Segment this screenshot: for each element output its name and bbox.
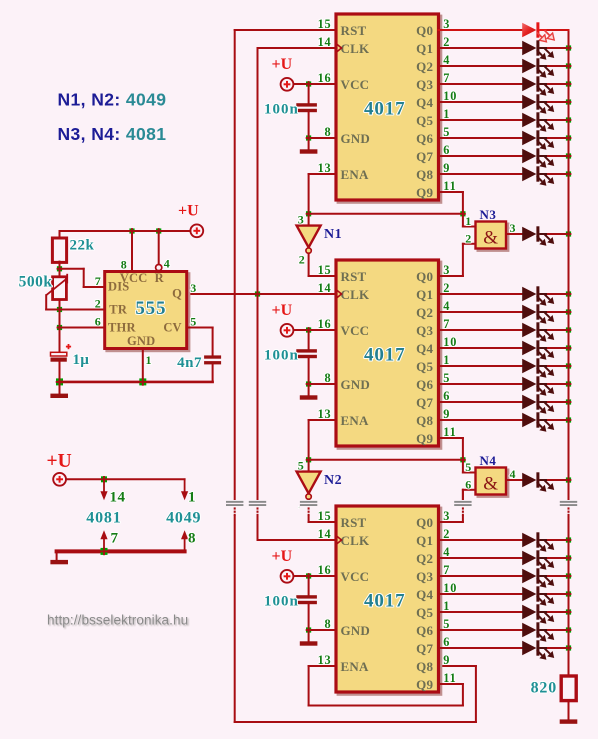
- wire U3 Q output row y=648: [439, 647, 523, 649]
- junction LED bus y=348: [566, 345, 572, 351]
- ground arrow pin 7 4081: [103, 538, 105, 551]
- svg-text:100n: 100n: [264, 101, 299, 117]
- wire U1 Q9 stub: [439, 191, 463, 193]
- LED D6 (U1 pin 1): [522, 112, 554, 132]
- wire C2 upper lead: [308, 330, 310, 349]
- wire LED cathode bus top corner: [548, 29, 569, 31]
- svg-text:1: 1: [188, 490, 196, 506]
- svg-text:4017: 4017: [364, 99, 406, 120]
- wire: [548, 401, 569, 403]
- wire DIS horizontal 1: [60, 268, 84, 270]
- supply arrow pin 1 4049: [184, 479, 186, 492]
- wire 555 GND pin: [142, 348, 144, 382]
- LED D9 (U1 pin 9): [522, 166, 554, 186]
- wire 22k top lead: [59, 231, 61, 238]
- wire: [548, 47, 569, 49]
- IC U3 4017 decade counter: [336, 506, 441, 694]
- svg-text:Q2: Q2: [416, 305, 433, 320]
- svg-text:+U: +U: [47, 451, 72, 472]
- wire C4 lower lead: [59, 362, 61, 382]
- junction TR node: [57, 307, 63, 313]
- wire U3 Q output row y=558: [439, 557, 523, 559]
- wire C1 upper lead: [308, 84, 310, 103]
- ground symbol at R3: [560, 719, 578, 723]
- svg-text:100n: 100n: [264, 593, 299, 609]
- wire N4 pin 5: [463, 472, 476, 474]
- wire pot top lead: [59, 269, 61, 277]
- wire U2 Q output row y=294: [439, 293, 523, 295]
- resistor R1 22k: [52, 238, 66, 262]
- junction gate ground rail: [100, 548, 108, 556]
- svg-text:7: 7: [95, 274, 102, 288]
- wire N4 pin 5 stub: [462, 460, 464, 473]
- junction LED bus y=612: [566, 609, 572, 615]
- wire: [548, 365, 569, 367]
- wire N4 output: [506, 479, 523, 481]
- svg-text:4: 4: [164, 257, 171, 271]
- LED D24 (U3 output): [522, 622, 554, 642]
- junction LED bus y=234: [566, 231, 572, 237]
- ground symbol 555: [50, 394, 68, 398]
- svg-text:N3, N4: 4081: N3, N4: 4081: [58, 124, 167, 144]
- wire: [548, 329, 569, 331]
- wire U2 Q output row y=402: [439, 401, 523, 403]
- svg-text:RST: RST: [341, 269, 367, 284]
- svg-text:+U: +U: [272, 548, 293, 565]
- svg-text:4017: 4017: [364, 345, 406, 366]
- svg-text:Q2: Q2: [416, 59, 433, 74]
- wire U2 Q output row y=420: [439, 419, 523, 421]
- svg-text:THR: THR: [108, 320, 136, 334]
- capacitor C1 100n: [296, 103, 317, 112]
- LED D12 (U2 output): [522, 322, 554, 342]
- junction LED bus y=594: [566, 591, 572, 597]
- svg-text:GND: GND: [127, 334, 155, 348]
- svg-text:ENA: ENA: [341, 659, 369, 674]
- wire U3 Q0 up to N4 (lower): [462, 515, 464, 522]
- svg-text:555: 555: [135, 298, 166, 319]
- svg-text:VCC: VCC: [341, 569, 370, 584]
- junction LED bus y=558: [566, 555, 572, 561]
- wire gate +U rail: [67, 478, 185, 480]
- wire U3 ENA horizontal: [309, 665, 336, 667]
- svg-text:VCC: VCC: [341, 323, 370, 338]
- wire GND pin U2: [309, 383, 336, 385]
- wire to ground 555: [59, 382, 61, 394]
- polarity + mark C4: [66, 344, 71, 349]
- wire 555 VCC pin up: [131, 231, 133, 272]
- junction LED bus y=366: [566, 363, 572, 369]
- wire node row 214: [309, 213, 463, 215]
- svg-text:+U: +U: [272, 302, 293, 319]
- junction LED bus y=138: [566, 135, 572, 141]
- wire: [548, 119, 569, 121]
- svg-text:Q9: Q9: [416, 185, 433, 200]
- svg-text:N2: N2: [324, 473, 342, 488]
- wire 555 CV: [187, 327, 213, 329]
- junction GND/C1: [306, 135, 312, 141]
- wire: [548, 479, 569, 481]
- svg-text:Q1: Q1: [416, 287, 433, 302]
- svg-text:Q2: Q2: [416, 551, 433, 566]
- wire-break mark Q0-N4 wire: [453, 500, 472, 516]
- svg-text:Q7: Q7: [416, 641, 433, 656]
- wire DIS to 555: [84, 286, 105, 288]
- wire bottom Q8 stub: [439, 665, 476, 667]
- junction LED bus y=102: [566, 99, 572, 105]
- wire U3 Q9 down: [462, 684, 464, 706]
- LED D14 (U2 output): [522, 358, 554, 378]
- svg-text:GND: GND: [341, 623, 371, 638]
- svg-text:3: 3: [190, 281, 197, 295]
- wire U3 Q output row y=576: [439, 575, 523, 577]
- svg-text:http://bsselektronika.hu: http://bsselektronika.hu: [47, 613, 188, 628]
- svg-text:6: 6: [465, 477, 472, 491]
- wire LED cathode bus upper segment: [568, 30, 570, 48]
- junction node left y=460: [306, 457, 312, 463]
- wire U2 Q9 down: [462, 438, 464, 460]
- svg-text:4049: 4049: [166, 510, 201, 527]
- IC U2 4017 decade counter: [336, 260, 441, 448]
- wire ENA U2 horizontal: [309, 419, 336, 421]
- wire GND pin U3: [309, 629, 336, 631]
- junction THR node: [57, 325, 63, 331]
- wire N2 output down: [308, 499, 310, 522]
- svg-text:Q5: Q5: [416, 359, 433, 374]
- wire U3 Q output row y=630: [439, 629, 523, 631]
- wire TR to 555: [60, 309, 105, 311]
- junction GND/C2: [306, 381, 312, 387]
- LED D10 (U2 output): [522, 286, 554, 306]
- wire U3 Q0 up to N4 (upper): [462, 490, 464, 501]
- wire: [548, 311, 569, 313]
- svg-text:N1, N2: 4049: N1, N2: 4049: [58, 90, 167, 110]
- wire N3 output: [506, 233, 523, 235]
- LED D7 (U1 pin 5): [522, 130, 554, 150]
- svg-text:Q6: Q6: [416, 377, 433, 392]
- svg-text:Q4: Q4: [416, 341, 433, 356]
- svg-text:9: 9: [443, 653, 450, 667]
- wire C3 lower lead: [212, 364, 214, 382]
- wire: [548, 575, 569, 577]
- svg-text:GND: GND: [341, 131, 371, 146]
- wire LED cathode bus upper: [568, 48, 570, 501]
- svg-text:8: 8: [188, 530, 196, 546]
- inverter N2: [297, 472, 321, 500]
- wire N1 output to RST: [309, 275, 336, 277]
- svg-text:2: 2: [465, 231, 472, 245]
- junction 555 reset: [156, 228, 162, 234]
- wire: [548, 347, 569, 349]
- wire: [548, 29, 569, 31]
- wire R3 lower lead: [568, 701, 570, 720]
- svg-text:Q3: Q3: [416, 77, 433, 92]
- junction LED bus y=648: [566, 645, 572, 651]
- LED N3 output: [522, 226, 554, 246]
- wire to ground block 3: [308, 630, 310, 642]
- wire U1 Q output row y=66: [439, 65, 523, 67]
- junction LED bus y=174: [566, 171, 572, 177]
- junction LED bus y=312: [566, 309, 572, 315]
- supply arrow pin 14 4081: [103, 479, 105, 492]
- svg-text:VCC: VCC: [341, 77, 370, 92]
- wire RST bus vertical upper: [234, 30, 236, 501]
- wire N3 pin 1: [463, 226, 476, 228]
- wire U1 Q output row y=84: [439, 83, 523, 85]
- wire GND pin U1: [309, 137, 336, 139]
- junction gate +U rail: [101, 476, 108, 483]
- svg-text:CV: CV: [163, 320, 181, 334]
- junction LED bus y=330: [566, 327, 572, 333]
- IC 555 timer: [105, 271, 189, 351]
- wire: [548, 557, 569, 559]
- wire RST bus to Q8 vertical: [475, 666, 477, 722]
- svg-text:14: 14: [318, 527, 332, 541]
- svg-text:14: 14: [110, 490, 126, 506]
- wire U3 Q9 stub: [439, 683, 463, 685]
- inverted reset bubble 555 pin 4: [156, 265, 162, 271]
- junction node right y=214: [460, 211, 466, 217]
- svg-text:1: 1: [146, 353, 153, 367]
- wire wiper to TR: [46, 309, 59, 311]
- wire to ground block 1: [308, 138, 310, 150]
- junction GND/C3: [306, 627, 312, 633]
- wire U2 Q output row y=366: [439, 365, 523, 367]
- LED D2 (U1 pin 2): [522, 40, 554, 60]
- wire: [548, 419, 569, 421]
- LED D4 (U1 pin 7): [522, 76, 554, 96]
- ground symbol block 2: [300, 395, 318, 399]
- svg-text:14: 14: [318, 35, 332, 49]
- +U supply symbol 555: [178, 203, 203, 238]
- wire U2 Q output row y=384: [439, 383, 523, 385]
- svg-text:4081: 4081: [86, 510, 121, 527]
- LED D17 (U2 output): [522, 412, 554, 432]
- wire: [548, 173, 569, 175]
- AND gate N3: [476, 222, 509, 251]
- wire: [548, 65, 569, 67]
- wire ENA U2 down: [308, 420, 310, 460]
- LED D25 (U3 output): [522, 640, 554, 660]
- wire U1 Q output row y=120: [439, 119, 523, 121]
- svg-text:Q6: Q6: [416, 623, 433, 638]
- wire N3 pin 2: [463, 243, 476, 245]
- svg-text:Q3: Q3: [416, 569, 433, 584]
- svg-text:CLK: CLK: [341, 533, 370, 548]
- wire THR to 555: [60, 327, 105, 329]
- junction VCC/C3: [306, 573, 312, 579]
- LED D21 (U3 output): [522, 568, 554, 588]
- svg-text:5: 5: [465, 460, 472, 474]
- ground arrow pin 8 4049: [184, 538, 186, 551]
- svg-text:4017: 4017: [364, 591, 406, 612]
- wire: [548, 647, 569, 649]
- svg-text:N3: N3: [480, 207, 497, 222]
- capacitor C3 4n7: [204, 355, 221, 364]
- wire main vertical TR-THR: [59, 310, 61, 328]
- wire RST bus vertical lower: [234, 515, 236, 722]
- wire U3 ENA down: [308, 666, 310, 706]
- wire gate rail to ground: [56, 551, 58, 560]
- wire 22k bottom lead: [59, 262, 61, 269]
- wire C1 lower lead: [308, 112, 310, 138]
- junction node right y=460: [460, 457, 466, 463]
- svg-text:Q1: Q1: [416, 533, 433, 548]
- svg-text:ENA: ENA: [341, 413, 369, 428]
- wire: [548, 137, 569, 139]
- junction LED bus y=540: [566, 537, 572, 543]
- potentiometer R2 500k: [46, 274, 67, 300]
- capacitor C2 100n: [296, 349, 317, 358]
- wire U1 Q output row y=174: [439, 173, 523, 175]
- wire N4 pin 6 vertical: [462, 490, 464, 508]
- wire CLK net top segment: [258, 47, 337, 49]
- svg-text:2: 2: [95, 297, 102, 311]
- wire-break mark CLK bus: [248, 500, 267, 516]
- LED D11 (U2 output): [522, 304, 554, 324]
- wire C3 lower lead: [308, 604, 310, 630]
- junction LED bus y=84: [566, 81, 572, 87]
- junction LED bus y=384: [566, 381, 572, 387]
- capacitor C4 1u electrolytic: [51, 352, 67, 361]
- svg-text:100n: 100n: [264, 347, 299, 363]
- svg-text:N4: N4: [480, 453, 497, 468]
- svg-text:22k: 22k: [70, 238, 95, 254]
- ground symbol gate ICs: [50, 560, 68, 564]
- wire U3 Q output row y=540: [439, 539, 523, 541]
- svg-text:Q4: Q4: [416, 587, 433, 602]
- inverter N1: [297, 226, 321, 254]
- wire U2 Q output row y=330: [439, 329, 523, 331]
- junction LED bus y=48: [566, 45, 572, 51]
- wire-break mark N2 output wire: [299, 500, 318, 516]
- wire wiper down: [45, 295, 47, 309]
- wire: [548, 83, 569, 85]
- svg-text:500k: 500k: [19, 274, 53, 291]
- svg-text:Q3: Q3: [416, 323, 433, 338]
- wire +U rail 555: [60, 230, 191, 232]
- junction CLK bus / 555 output: [255, 291, 261, 297]
- wire U2 Q output row y=312: [439, 311, 523, 313]
- ground symbol block 1: [300, 149, 318, 153]
- svg-text:ENA: ENA: [341, 167, 369, 182]
- wire: [548, 293, 569, 295]
- LED D16 (U2 output): [522, 394, 554, 414]
- wire ENA U1 horizontal: [309, 173, 336, 175]
- wire U1 Q output row y=102: [439, 101, 523, 103]
- wire: [548, 383, 569, 385]
- LED D3 (U1 pin 4): [522, 58, 554, 78]
- svg-text:4n7: 4n7: [177, 355, 202, 371]
- svg-text:DIS: DIS: [108, 280, 129, 294]
- wire RST net top segment: [235, 29, 336, 31]
- svg-text:N1: N1: [324, 227, 342, 242]
- svg-text:5: 5: [298, 458, 305, 472]
- wire CV down to C3: [212, 328, 214, 356]
- wire N2 input: [308, 460, 310, 472]
- svg-text:TR: TR: [109, 302, 128, 316]
- junction LED bus y=156: [566, 153, 572, 159]
- svg-text:3: 3: [298, 212, 305, 226]
- wire U1 Q output row y=156: [439, 155, 523, 157]
- svg-text:5: 5: [190, 315, 197, 329]
- resistor R3 820: [561, 676, 576, 701]
- svg-text:CLK: CLK: [341, 287, 370, 302]
- junction LED bus y=402: [566, 399, 572, 405]
- wire RST bus bottom horizontal: [235, 721, 476, 723]
- junction VCC/C1: [306, 81, 312, 87]
- junction LED bus y=630: [566, 627, 572, 633]
- svg-text:+U: +U: [178, 203, 199, 220]
- wire: [548, 593, 569, 595]
- svg-text:8: 8: [121, 257, 128, 271]
- wire U3 Q output row y=594: [439, 593, 523, 595]
- wire N1 input: [308, 214, 310, 226]
- LED D5 (U1 pin 10): [522, 94, 554, 114]
- junction ground rail left: [56, 378, 64, 386]
- capacitor C3 100n: [296, 595, 317, 604]
- junction node left y=214: [306, 211, 312, 217]
- svg-text:&: &: [483, 228, 498, 249]
- junction 555 VCC: [129, 228, 135, 234]
- LED D8 (U1 pin 6): [522, 148, 554, 168]
- wire: [548, 629, 569, 631]
- svg-text:Q9: Q9: [416, 431, 433, 446]
- wire U3 ENA-Q9 bottom: [309, 705, 463, 707]
- svg-text:GND: GND: [341, 377, 371, 392]
- wire VCC to U2: [294, 329, 337, 331]
- wire N4 pin 6: [463, 489, 476, 491]
- svg-text:+U: +U: [272, 56, 293, 73]
- junction LED bus y=294: [566, 291, 572, 297]
- +U supply symbol gate ICs: [47, 451, 72, 486]
- svg-text:RST: RST: [341, 23, 367, 38]
- wire U1 Q output row y=48: [439, 47, 523, 49]
- wire: [548, 611, 569, 613]
- wire N1 output down: [308, 253, 310, 276]
- wire: [548, 539, 569, 541]
- wire U1 Q9 down: [462, 192, 464, 214]
- junction 22k/pot/DIS: [57, 266, 63, 272]
- svg-text:Q8: Q8: [416, 167, 433, 182]
- wire 555 R bubble to box: [158, 270, 160, 273]
- junction LED bus y=66: [566, 63, 572, 69]
- wire U1 Q output row y=30: [439, 29, 523, 31]
- wire: [548, 233, 569, 235]
- svg-text:Q0: Q0: [416, 515, 433, 530]
- IC U1 4017 decade counter: [336, 14, 441, 202]
- svg-text:Q5: Q5: [416, 605, 433, 620]
- svg-text:Q7: Q7: [416, 149, 433, 164]
- wire 555 output to CLK net: [187, 293, 336, 295]
- svg-text:14: 14: [318, 281, 332, 295]
- svg-text:Q0: Q0: [416, 269, 433, 284]
- LED D13 (U2 output): [522, 340, 554, 360]
- wire C3 upper lead: [308, 576, 310, 595]
- wire VCC to U1: [294, 83, 337, 85]
- LED D22 (U3 output): [522, 586, 554, 606]
- svg-text:&: &: [483, 474, 498, 495]
- LED D19 (U3 output): [522, 532, 554, 552]
- svg-text:Q4: Q4: [416, 95, 433, 110]
- svg-text:R: R: [155, 271, 165, 285]
- svg-text:1: 1: [465, 214, 472, 228]
- wire-break mark LED bus: [559, 500, 578, 516]
- LED D15 (U2 output): [522, 376, 554, 396]
- svg-text:Q6: Q6: [416, 131, 433, 146]
- LED D20 (U3 output): [522, 550, 554, 570]
- wire DIS vertical: [83, 269, 85, 287]
